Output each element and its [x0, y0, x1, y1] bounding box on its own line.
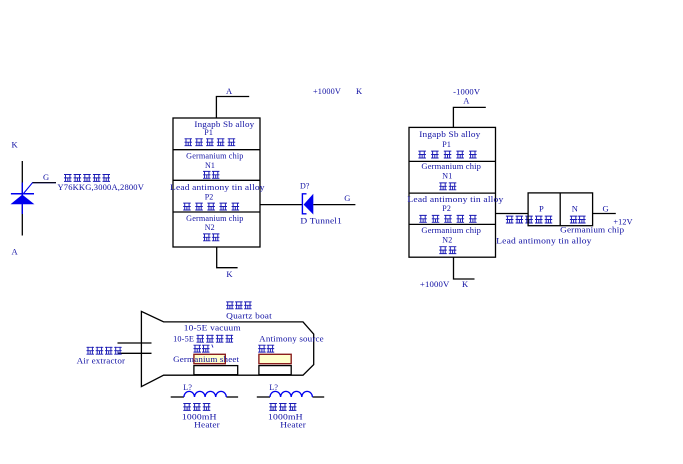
thyristor V1 cathode bar [11, 193, 34, 195]
label heater 2 (hanzi) [269, 403, 296, 411]
svg-text:A: A [12, 247, 19, 257]
svg-text:10-5E vacuum: 10-5E vacuum [184, 323, 242, 332]
thyristor V1 triangle [11, 195, 35, 205]
svg-text:Germanium chip: Germanium chip [186, 151, 243, 160]
wire left stack cathode [217, 247, 238, 268]
svg-text:G: G [344, 193, 350, 203]
inductor L2 leads [257, 396, 270, 398]
inductor L1 coil [184, 391, 226, 397]
svg-text:Ingapb Sb alloy: Ingapb Sb alloy [419, 130, 480, 139]
svg-text:D?: D? [300, 181, 310, 190]
antimony source box (yellow) [259, 354, 291, 363]
svg-text:Y76KKG,3000A,2800V: Y76KKG,3000A,2800V [58, 183, 145, 192]
svg-text:P: P [539, 203, 544, 213]
svg-text:Lead antimony tin alloy: Lead antimony tin alloy [496, 237, 591, 246]
svg-text:Lead antimony tin alloy: Lead antimony tin alloy [170, 183, 265, 192]
right stack device body [409, 127, 496, 257]
svg-text:N1: N1 [442, 171, 452, 180]
svg-text:A: A [463, 95, 470, 105]
svg-text:Antimony source: Antimony source [259, 334, 324, 343]
svg-text:K: K [462, 279, 469, 289]
thyristor gate lead [24, 183, 57, 194]
svg-text:N: N [572, 203, 578, 213]
PN germanium chip box [528, 193, 593, 226]
label: fast thyristor (hanzi) [64, 174, 110, 182]
svg-text:L?: L? [269, 383, 278, 392]
wire PN chip to G [593, 213, 616, 215]
wire right stack to PN chip [496, 213, 529, 215]
svg-text:K: K [226, 269, 233, 279]
svg-text:Germanium sheet: Germanium sheet [173, 355, 240, 364]
svg-text:P1: P1 [204, 128, 213, 137]
label germanium sheet (hanzi) [194, 345, 210, 353]
germanium sheet sample box (yellow) [194, 354, 225, 363]
quartz boat outline [141, 311, 313, 386]
svg-text:+1000V: +1000V [313, 87, 341, 96]
svg-text:Heater: Heater [280, 420, 306, 429]
svg-text:N2: N2 [205, 223, 215, 232]
wire thyristor cathode-anode vertical [21, 161, 23, 236]
tunnel diode D? triangle [304, 194, 314, 215]
inductor L1 leads [171, 396, 184, 398]
wire tunnel diode to G [313, 204, 355, 206]
svg-text:P1: P1 [442, 140, 451, 149]
svg-text:Germanium chip: Germanium chip [421, 226, 481, 235]
label air extractor (hanzi) [87, 347, 122, 355]
label lead-antimony-tin alloy (hanzi, on wire) [506, 216, 552, 224]
wire right stack anode [453, 107, 485, 128]
svg-text:Quartz boat: Quartz boat [226, 311, 272, 320]
wire right stack cathode [454, 257, 475, 279]
svg-text:G: G [43, 172, 49, 182]
svg-text:Germanium chip: Germanium chip [421, 162, 481, 171]
inductor L2 coil [270, 391, 312, 397]
svg-text:Germanium chip: Germanium chip [560, 225, 624, 234]
pedestal 1 [194, 366, 238, 375]
tunnel diode D? cathode bracket [302, 194, 306, 214]
svg-text:Germanium chip: Germanium chip [186, 214, 243, 223]
svg-text:D Tunnel1: D Tunnel1 [300, 216, 342, 225]
pedestal 2 [259, 366, 291, 375]
label heater 1 (hanzi) [183, 403, 210, 411]
svg-text:N1: N1 [205, 161, 215, 170]
wire stack P2 to tunnel diode [260, 204, 302, 206]
label quartz boat (hanzi) [226, 301, 251, 309]
svg-text:K: K [356, 86, 363, 96]
svg-text:Lead antimony tin alloy: Lead antimony tin alloy [407, 195, 503, 204]
svg-text:P2: P2 [442, 204, 451, 213]
svg-text:L?: L? [183, 383, 192, 392]
svg-text:Heater: Heater [194, 420, 220, 429]
wire left stack anode [216, 97, 249, 119]
svg-text:10-5E: 10-5E [173, 334, 194, 343]
air extractor pipe lines [118, 342, 152, 344]
svg-text:Air extractor: Air extractor [77, 356, 126, 365]
svg-text:K: K [12, 140, 19, 150]
svg-text:P2: P2 [205, 192, 214, 201]
left stack device body [173, 118, 260, 247]
svg-text:A: A [226, 86, 233, 96]
svg-text:G: G [603, 203, 609, 213]
svg-text:N2: N2 [442, 236, 452, 245]
svg-text:+1000V: +1000V [420, 280, 450, 289]
label antimony source (hanzi) [258, 345, 274, 353]
